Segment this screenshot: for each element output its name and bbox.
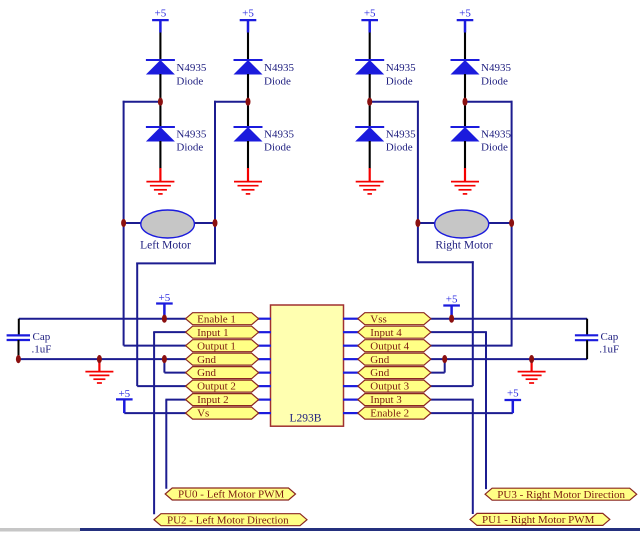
svg-text:Cap: Cap (33, 331, 51, 343)
svg-text:Enable 1: Enable 1 (197, 313, 236, 325)
wire Output 3 vertical (472, 261, 474, 386)
diode D5 (N4935) (355, 60, 384, 75)
wire junction to D4 (247, 102, 249, 127)
wire right motor right lead (489, 222, 512, 224)
capacitor C2 top lead (586, 319, 588, 336)
wire right motor left vertical (417, 101, 419, 262)
wire pin stub left row 6 (257, 385, 271, 387)
svg-text:+5: +5 (459, 8, 471, 20)
capacitor C2 bottom lead (586, 340, 588, 359)
wire Output 3 net (430, 385, 473, 387)
svg-text:N4935: N4935 (176, 62, 206, 74)
capacitor C1 top lead (18, 319, 20, 336)
junction right motor left (415, 219, 420, 227)
svg-text:N4935: N4935 (176, 129, 206, 141)
wire Enable 2 net (430, 412, 513, 414)
wire pin stub right row 8 (343, 412, 359, 414)
node PU3 - Right Motor Direction (485, 488, 637, 501)
wire Vss net (430, 318, 587, 320)
svg-text:N4935: N4935 (481, 62, 511, 74)
svg-text:N4935: N4935 (264, 129, 294, 141)
pin label Gnd (left pin 4) (186, 353, 259, 366)
svg-text:Diode: Diode (176, 75, 203, 87)
wire pin stub right row 4 (343, 358, 359, 360)
+5 power symbol on Vss (443, 294, 460, 319)
junction col2 (246, 98, 251, 106)
node PU2 - Left Motor Direction (154, 514, 307, 527)
motor M2 (Right Motor) (435, 210, 489, 238)
pin label Output 3 (right pin 11) (358, 380, 431, 393)
wire left motor right lead (195, 222, 216, 224)
wire left motor right jog (136, 262, 216, 264)
wire Input 1 net (153, 331, 186, 333)
svg-text:Vs: Vs (197, 408, 209, 420)
svg-text:Diode: Diode (264, 75, 291, 87)
+5 power symbol above D5 (361, 8, 378, 33)
wire left motor left lead (124, 222, 142, 224)
wire D4 to ground (247, 141, 249, 169)
+5 power symbol on Enable 1 (156, 292, 173, 319)
pin label Output 2 (left pin 6) (186, 380, 259, 393)
sheet border gray segment (0, 528, 80, 532)
svg-text:Diode: Diode (481, 75, 508, 87)
wire Input 4 net (430, 331, 487, 333)
svg-text:Cap: Cap (601, 331, 619, 343)
svg-text:Output 1: Output 1 (197, 340, 236, 352)
wire D7 to junction (464, 74, 466, 102)
node PU0 - Left Motor PWM (165, 488, 295, 501)
wire pin stub left row 7 (257, 399, 271, 401)
svg-text:Input 2: Input 2 (197, 394, 228, 406)
wire right motor left jog (417, 261, 474, 263)
svg-text:+5: +5 (155, 8, 167, 20)
wire D5 anode stem (369, 33, 371, 61)
svg-text:+5: +5 (159, 292, 171, 304)
diode D8 (N4935) (451, 127, 480, 142)
svg-text:Output 3: Output 3 (370, 381, 409, 393)
wire right motor left lead (418, 222, 436, 224)
ground below D2 (146, 168, 174, 194)
pin label Gnd (right pin 13) (358, 353, 431, 366)
junction col1 (158, 98, 163, 106)
svg-text:+5: +5 (364, 8, 376, 20)
wire pin stub right row 1 (343, 318, 359, 320)
wire pin stub right row 3 (343, 345, 359, 347)
junction ground left (97, 355, 102, 363)
junction Gnd jog left (162, 355, 167, 363)
svg-text:Left Motor: Left Motor (140, 239, 191, 251)
pin label Output 1 (left pin 3) (186, 340, 259, 353)
svg-text:.1uF: .1uF (32, 344, 52, 356)
+5 power symbol on Vs (116, 388, 133, 413)
wire Input 3 net (430, 399, 474, 401)
svg-text:Gnd: Gnd (197, 354, 216, 366)
wire Vs net (124, 412, 186, 414)
svg-text:Input 3: Input 3 (370, 394, 402, 406)
wire Input 2 net (165, 399, 186, 401)
wire pin stub left row 4 (257, 358, 271, 360)
wire Gnd net right (430, 358, 587, 360)
+5 power symbol above D7 (457, 8, 474, 33)
svg-text:N4935: N4935 (264, 62, 294, 74)
svg-text:+5: +5 (118, 388, 130, 400)
wire col1 junction branch (123, 101, 161, 103)
pin label Vss (right pin 16) (358, 313, 431, 326)
junction col4 (463, 98, 468, 106)
junction +5 Vss (449, 315, 454, 323)
svg-text:L293B: L293B (290, 412, 322, 424)
svg-text:+5: +5 (446, 294, 458, 306)
op-amp U1 L293B body (271, 305, 344, 426)
wire Gnd net left (18, 358, 186, 360)
pin label Input 3 (right pin 10) (358, 394, 431, 407)
wire pin stub right row 2 (343, 331, 359, 333)
pin label Enable 1 (left pin 1) (186, 313, 259, 326)
wire D5 to junction (369, 74, 371, 102)
svg-text:PU2 - Left Motor Direction: PU2 - Left Motor Direction (167, 514, 289, 526)
wire Gnd 2 right jog horizontal (430, 372, 445, 374)
svg-text:Input 4: Input 4 (370, 327, 402, 339)
diode D7 (N4935) (451, 60, 480, 75)
svg-text:Gnd: Gnd (197, 367, 216, 379)
ground below D8 (451, 168, 479, 194)
wire D6 to ground (369, 141, 371, 169)
svg-text:+5: +5 (242, 8, 254, 20)
wire Gnd 2 right jog vertical (444, 359, 446, 372)
svg-text:Input 1: Input 1 (197, 327, 228, 339)
ground below D6 (356, 168, 384, 194)
wire D8 to ground (464, 141, 466, 169)
svg-text:Diode: Diode (481, 141, 508, 153)
wire pin stub right row 7 (343, 399, 359, 401)
wire col3 junction branch (370, 101, 419, 103)
wire pin stub left row 3 (257, 345, 271, 347)
wire Input 4 to PU3 vertical (485, 332, 487, 489)
wire D1 anode stem (159, 33, 161, 61)
junction ground right (529, 355, 534, 363)
ground below D4 (234, 168, 262, 194)
wire D3 anode stem (247, 33, 249, 61)
wire Input 1 to PU2 vertical (153, 332, 155, 514)
wire pin stub left row 5 (257, 372, 271, 374)
wire junction to D8 (464, 102, 466, 127)
junction Gnd jog right (442, 355, 447, 363)
+5 power symbol on Enable 2 (505, 387, 522, 413)
wire Output 1 net (124, 345, 187, 347)
wire pin stub right row 6 (343, 385, 359, 387)
wire D7 anode stem (464, 33, 466, 61)
wire D1 to junction (159, 74, 161, 102)
wire Input 3 to PU1 vertical (472, 400, 474, 514)
wire Gnd 2 jog horizontal (164, 372, 186, 374)
wire Gnd 2 jog vertical (163, 359, 165, 372)
wire pin stub left row 1 (257, 318, 271, 320)
wire col2 junction branch (214, 101, 248, 103)
wire Input 2 to PU0 vertical (165, 400, 167, 489)
diode D3 (N4935) (234, 60, 263, 75)
svg-text:N4935: N4935 (386, 62, 416, 74)
svg-text:N4935: N4935 (386, 129, 416, 141)
junction +5 Enable 1 (162, 315, 167, 323)
diode D4 (N4935) (234, 127, 263, 142)
node PU1 - Right Motor PWM (470, 513, 610, 526)
ground right of IC (518, 360, 546, 383)
+5 power symbol above D3 (240, 8, 257, 33)
junction left motor right (213, 219, 218, 227)
svg-text:+5: +5 (507, 387, 519, 399)
svg-text:Output 2: Output 2 (197, 381, 236, 393)
svg-text:Gnd: Gnd (370, 367, 389, 379)
pin label Input 1 (left pin 2) (186, 326, 259, 339)
svg-text:N4935: N4935 (481, 129, 511, 141)
wire D2 to ground (159, 141, 161, 169)
capacitor C2 plates (575, 335, 598, 340)
svg-text:PU3 - Right Motor Direction: PU3 - Right Motor Direction (497, 489, 625, 501)
diode D2 (N4935) (146, 127, 175, 142)
wire col4 junction branch (465, 101, 513, 103)
wire pin stub left row 2 (257, 331, 271, 333)
pin label Input 2 (left pin 7) (186, 394, 259, 407)
pin label Vs (left pin 8) (186, 407, 259, 420)
wire Output 2 net (137, 385, 186, 387)
+5 power symbol above D1 (152, 8, 169, 33)
svg-text:Enable 2: Enable 2 (370, 408, 409, 420)
wire left motor left vertical (123, 101, 125, 346)
pin label Enable 2 (right pin 9) (358, 407, 431, 420)
capacitor C1 plates (7, 335, 30, 340)
svg-text:Diode: Diode (386, 75, 413, 87)
junction C1 bottom (16, 355, 21, 363)
svg-text:Right Motor: Right Motor (435, 239, 492, 251)
svg-text:PU0 - Left Motor PWM: PU0 - Left Motor PWM (178, 489, 285, 501)
wire Output 4 net (430, 345, 513, 347)
wire pin stub left row 8 (257, 412, 271, 414)
svg-text:PU1 - Right Motor PWM: PU1 - Right Motor PWM (482, 514, 595, 526)
diode D6 (N4935) (355, 127, 384, 142)
wire pin stub right row 5 (343, 372, 359, 374)
svg-text:Gnd: Gnd (370, 354, 389, 366)
sheet border navy segment (80, 528, 640, 531)
diode D1 (N4935) (146, 60, 175, 75)
svg-text:Diode: Diode (386, 141, 413, 153)
wire junction to D6 (369, 102, 371, 127)
wire left motor right vertical (214, 101, 216, 264)
svg-text:Vss: Vss (370, 313, 387, 325)
junction left motor left (121, 219, 126, 227)
junction right motor right (509, 219, 514, 227)
pin label Gnd (left pin 5) (186, 367, 259, 380)
pin label Input 4 (right pin 15) (358, 326, 431, 339)
svg-text:.1uF: .1uF (599, 343, 619, 355)
wire Enable 1 net (19, 318, 187, 320)
junction col3 (367, 98, 372, 106)
pin label Output 4 (right pin 14) (358, 340, 431, 353)
wire D3 to junction (247, 74, 249, 102)
svg-text:Diode: Diode (264, 141, 291, 153)
capacitor C1 bottom lead (18, 340, 20, 359)
svg-text:Diode: Diode (176, 141, 203, 153)
wire Output 2 vertical (136, 263, 138, 387)
wire right motor right vertical (511, 101, 513, 346)
pin label Gnd (right pin 12) (358, 367, 431, 380)
wire junction to D2 (159, 102, 161, 127)
motor M1 (Left Motor) (141, 210, 195, 238)
ground left of IC (85, 360, 113, 383)
svg-text:Output 4: Output 4 (370, 340, 409, 352)
